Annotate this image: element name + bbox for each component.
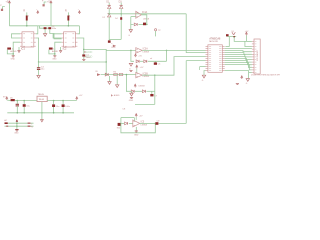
svg-text:N: N bbox=[31, 127, 33, 129]
junction bbox=[146, 24, 148, 26]
svg-text:G: G bbox=[128, 35, 130, 37]
ground bbox=[59, 47, 61, 53]
capacitor C9 bbox=[155, 120, 160, 124]
supply +5V bbox=[78, 9, 81, 14]
wire bbox=[121, 118, 155, 133]
svg-text:GND: GND bbox=[11, 59, 16, 61]
svg-text:1: 1 bbox=[69, 16, 71, 18]
ground bbox=[11, 54, 16, 61]
svg-text:AUDIO: AUDIO bbox=[85, 56, 92, 59]
ground bbox=[18, 47, 20, 53]
ground bbox=[116, 76, 119, 88]
wire bbox=[101, 62, 136, 75]
wire bbox=[225, 48, 252, 50]
wire bbox=[77, 38, 84, 54]
wire bbox=[225, 71, 249, 79]
svg-text:ref: ref bbox=[150, 58, 153, 60]
ground bbox=[129, 63, 133, 71]
wire bbox=[148, 60, 167, 62]
resistor R1 bbox=[23, 9, 29, 26]
svg-text:GND: GND bbox=[129, 100, 134, 102]
ground bbox=[128, 24, 132, 36]
svg-text:IN: IN bbox=[95, 71, 98, 73]
ground bbox=[82, 59, 85, 60]
wire bbox=[120, 9, 122, 17]
svg-text:10u: 10u bbox=[41, 69, 45, 71]
svg-text:IC1: IC1 bbox=[21, 48, 25, 51]
junction bbox=[53, 100, 64, 102]
diode D7 bbox=[136, 60, 139, 63]
op-amp U3A bbox=[133, 120, 148, 127]
label bbox=[251, 74, 284, 77]
junction bbox=[12, 53, 14, 55]
svg-text:R: R bbox=[65, 9, 67, 13]
ground bbox=[37, 70, 40, 79]
net label bbox=[84, 51, 92, 54]
junction bbox=[108, 13, 110, 15]
svg-text:G: G bbox=[246, 83, 248, 85]
diode D1 bbox=[108, 3, 111, 9]
test point TP1 bbox=[155, 29, 162, 37]
svg-text:AGND: AGND bbox=[10, 50, 16, 53]
capacitor C4 bbox=[82, 54, 91, 58]
junction bbox=[38, 61, 40, 63]
wire bbox=[158, 122, 186, 124]
wire bbox=[12, 34, 21, 38]
wire bbox=[126, 75, 131, 92]
wire bbox=[131, 16, 136, 18]
supply +5V P2 bbox=[47, 0, 52, 4]
svg-text:AUDIO: AUDIO bbox=[85, 51, 92, 54]
svg-text:LM358: LM358 bbox=[139, 85, 145, 87]
wire bbox=[142, 49, 205, 51]
wire bbox=[225, 65, 252, 70]
wire bbox=[225, 55, 252, 57]
diode D13 bbox=[10, 97, 15, 101]
svg-text:10u: 10u bbox=[26, 106, 30, 108]
svg-text:G: G bbox=[202, 80, 204, 82]
wire bbox=[9, 25, 37, 27]
svg-text:+5V: +5V bbox=[139, 115, 143, 117]
wire bbox=[135, 91, 155, 104]
input pad X1 bbox=[0, 5, 5, 11]
wire bbox=[140, 122, 156, 124]
wire bbox=[109, 13, 186, 15]
svg-text:R: R bbox=[23, 9, 25, 13]
wire bbox=[5, 125, 34, 127]
svg-text:AGND: AGND bbox=[52, 50, 58, 53]
junction bbox=[54, 53, 56, 55]
svg-text:LM358: LM358 bbox=[143, 19, 149, 21]
svg-text:78L05: 78L05 bbox=[38, 94, 45, 96]
diode D12 bbox=[125, 122, 128, 125]
switch S1 bbox=[231, 31, 235, 35]
wire bbox=[8, 3, 10, 26]
svg-text:GND: GND bbox=[14, 133, 19, 135]
wire bbox=[109, 38, 121, 40]
wire bbox=[106, 49, 136, 51]
svg-text:+5V: +5V bbox=[140, 67, 144, 69]
junction bbox=[105, 61, 107, 63]
junction bbox=[233, 36, 235, 38]
wire bbox=[138, 23, 143, 25]
wire bbox=[108, 17, 110, 40]
ground bbox=[202, 71, 206, 82]
capacitor C12 bbox=[23, 101, 31, 113]
svg-text:o: o bbox=[111, 43, 112, 45]
wire bbox=[50, 29, 62, 39]
wire bbox=[246, 35, 252, 41]
wire bbox=[16, 123, 18, 126]
wire bbox=[47, 100, 77, 102]
supply arrow bbox=[136, 65, 144, 72]
svg-text:IC4A: IC4A bbox=[142, 11, 148, 14]
supply +12V bbox=[3, 97, 8, 100]
wire bbox=[200, 67, 206, 70]
wire bbox=[225, 53, 252, 55]
junction bbox=[26, 25, 28, 27]
wire bbox=[51, 25, 79, 27]
supply +5V bbox=[135, 114, 143, 120]
svg-text:LM358: LM358 bbox=[143, 51, 150, 53]
svg-text:IN2: IN2 bbox=[117, 128, 121, 130]
svg-text:C8: C8 bbox=[122, 109, 126, 111]
resistor R8 bbox=[6, 126, 8, 127]
wire bbox=[5, 122, 34, 124]
svg-text:78L05: 78L05 bbox=[39, 99, 44, 101]
wire bbox=[53, 34, 62, 38]
wire bbox=[36, 26, 38, 34]
microcontroller U4 ATMEGA8 bbox=[206, 37, 225, 72]
wire bbox=[121, 118, 134, 121]
net label AGND bbox=[10, 50, 16, 53]
svg-text:C6: C6 bbox=[158, 64, 161, 66]
svg-text:+5V: +5V bbox=[138, 55, 142, 57]
svg-text:MCU-28: MCU-28 bbox=[209, 41, 218, 43]
svg-text:AC: AC bbox=[4, 119, 7, 122]
net label bbox=[150, 58, 153, 60]
resistor R4 bbox=[49, 48, 57, 51]
wire bbox=[50, 3, 52, 26]
wire bbox=[39, 61, 107, 63]
ground bbox=[246, 79, 250, 85]
resistor R6 bbox=[119, 74, 123, 76]
junction bbox=[17, 100, 26, 102]
junction bbox=[130, 50, 132, 52]
wire bbox=[108, 9, 110, 14]
op-amp IC IC2 bbox=[62, 32, 78, 51]
supply arrow bbox=[134, 84, 144, 87]
wire bbox=[186, 61, 205, 124]
supply arrow bbox=[134, 54, 142, 58]
capacitor C6 bbox=[154, 61, 161, 65]
svg-text:100n: 100n bbox=[52, 28, 57, 30]
wire bbox=[131, 17, 134, 25]
junction bbox=[155, 123, 157, 125]
wire bbox=[129, 122, 133, 124]
wire bbox=[38, 25, 51, 27]
junction bbox=[83, 49, 85, 51]
capacitor C10 bbox=[226, 34, 229, 36]
junction bbox=[68, 25, 70, 27]
wire bbox=[140, 60, 143, 62]
op-amp U2B bbox=[136, 72, 150, 78]
supply +5V P1 bbox=[6, 0, 11, 4]
svg-text:LM358: LM358 bbox=[141, 124, 148, 126]
wire bbox=[225, 63, 252, 68]
ground rail bbox=[7, 112, 74, 114]
capacitor C11 bbox=[16, 101, 19, 113]
capacitor C13 bbox=[52, 101, 60, 113]
svg-text:P: P bbox=[0, 5, 2, 7]
ground bbox=[108, 76, 111, 84]
junction bbox=[120, 13, 122, 15]
wire bbox=[245, 41, 252, 46]
svg-text:TP: TP bbox=[158, 30, 161, 32]
svg-text:D3: D3 bbox=[119, 1, 123, 3]
wire bbox=[49, 42, 62, 54]
svg-text:AGND: AGND bbox=[114, 94, 120, 97]
svg-text:GND: GND bbox=[52, 59, 57, 61]
input pad X2 bbox=[42, 0, 47, 6]
op-amp U1A bbox=[136, 11, 149, 20]
junction bbox=[17, 112, 64, 114]
diode D6 bbox=[134, 23, 137, 26]
wire bbox=[225, 37, 229, 47]
resistor R5 bbox=[113, 72, 117, 76]
wire bbox=[36, 38, 39, 62]
wire bbox=[225, 59, 252, 63]
wire bbox=[225, 57, 252, 60]
capacitor C15 bbox=[5, 122, 8, 124]
wire bbox=[146, 90, 154, 92]
svg-text:10u: 10u bbox=[56, 106, 60, 108]
ground bbox=[43, 29, 46, 36]
capacitor C14 bbox=[62, 101, 71, 113]
capacitor C3 bbox=[37, 62, 45, 71]
resistor R3 bbox=[65, 9, 71, 26]
svg-text:D2: D2 bbox=[103, 17, 105, 19]
svg-text:1: 1 bbox=[28, 16, 30, 18]
wire bbox=[186, 14, 205, 53]
supply +5V bbox=[36, 9, 39, 14]
wire bbox=[249, 72, 252, 74]
wire bbox=[131, 50, 134, 61]
svg-text:S1: S1 bbox=[231, 31, 234, 33]
supply +5V bbox=[106, 1, 122, 3]
wire bbox=[77, 26, 79, 34]
wire bbox=[225, 51, 252, 52]
wire bbox=[234, 37, 246, 42]
wire bbox=[141, 15, 146, 25]
junction bbox=[166, 50, 168, 52]
net label arrow bbox=[111, 43, 116, 47]
ground bbox=[41, 120, 44, 122]
ground bbox=[52, 54, 57, 61]
diode D11 bbox=[142, 90, 145, 93]
diode D2 bbox=[103, 14, 111, 19]
svg-text:LM358: LM358 bbox=[143, 76, 150, 78]
net label bbox=[84, 56, 92, 59]
input arrow bbox=[95, 71, 100, 76]
svg-text:IC2: IC2 bbox=[63, 48, 67, 51]
capacitor C1 bbox=[44, 27, 47, 29]
wire bbox=[41, 102, 43, 120]
capacitor C2 bbox=[48, 26, 57, 30]
wire bbox=[154, 75, 156, 91]
svg-text:+5V: +5V bbox=[79, 95, 83, 97]
diode D4 bbox=[115, 17, 122, 20]
ground mark bbox=[236, 83, 239, 84]
supply +5V bbox=[76, 95, 83, 100]
supply mark bbox=[241, 76, 243, 79]
connector SV1 bbox=[252, 39, 260, 74]
svg-text:DIL28 THIN PINHD ALIGATOR SPRI: DIL28 THIN PINHD ALIGATOR SPRING bbox=[251, 74, 280, 77]
diode D9 bbox=[105, 73, 108, 76]
wire bbox=[121, 122, 124, 124]
wire bbox=[142, 57, 205, 76]
input jack X3 bbox=[117, 123, 121, 130]
svg-text:C9: C9 bbox=[157, 120, 160, 122]
label bbox=[122, 109, 126, 111]
wire bbox=[166, 50, 168, 61]
LED D5 bbox=[108, 40, 116, 49]
svg-text:P: P bbox=[42, 0, 44, 2]
wire bbox=[39, 26, 48, 28]
diode D8 bbox=[144, 60, 147, 63]
wire bbox=[83, 57, 85, 60]
wire bbox=[84, 49, 106, 62]
wire bbox=[120, 20, 122, 39]
wire bbox=[7, 99, 11, 102]
junction bbox=[126, 74, 128, 76]
wire bbox=[7, 42, 20, 54]
diode D10 bbox=[131, 90, 134, 93]
net label AGND bbox=[52, 50, 58, 53]
resistor R10 bbox=[28, 125, 34, 128]
resistor R9 bbox=[28, 122, 33, 125]
ground bbox=[129, 91, 134, 102]
wire bbox=[135, 90, 142, 92]
ground bbox=[134, 127, 139, 136]
wire bbox=[227, 36, 236, 38]
wire bbox=[225, 61, 252, 65]
supply +5V bbox=[245, 31, 249, 36]
op-amp IC IC1 bbox=[20, 32, 36, 51]
svg-text:100n: 100n bbox=[65, 106, 70, 108]
svg-text:GND: GND bbox=[134, 134, 139, 136]
capacitor C7 bbox=[150, 91, 157, 97]
svg-text:D4: D4 bbox=[115, 18, 118, 20]
junction bbox=[16, 122, 18, 127]
ground bbox=[14, 126, 19, 134]
voltage regulator VR1 78L05 bbox=[37, 94, 47, 102]
net label AGND bbox=[111, 94, 120, 97]
svg-text:L: L bbox=[31, 123, 32, 125]
diode D3 bbox=[120, 3, 123, 9]
op-amp U2A bbox=[136, 48, 150, 54]
capacitor C5 bbox=[143, 23, 146, 26]
svg-text:SV1 HEADER: SV1 HEADER bbox=[256, 50, 259, 61]
supply arrow bbox=[4, 119, 18, 123]
junction bbox=[154, 74, 156, 76]
svg-text:LED: LED bbox=[111, 47, 116, 49]
wire bbox=[15, 100, 37, 102]
resistor R2 bbox=[7, 48, 15, 51]
